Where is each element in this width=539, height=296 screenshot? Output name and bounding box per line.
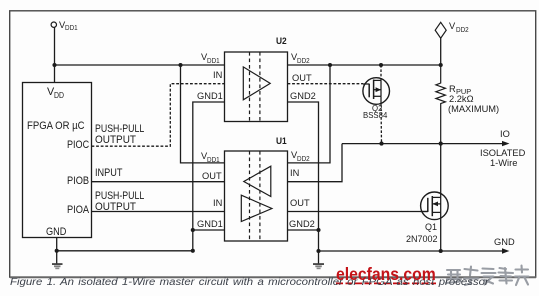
label ISOLATED — [480, 149, 525, 158]
wire U2 GND2 — [288, 102, 319, 251]
wire gnd2 rail to arrow — [319, 250, 506, 252]
label U1 pin OUT left — [202, 172, 222, 181]
label transistor Q2 — [372, 105, 382, 113]
label U2 pin GND1 — [197, 92, 223, 101]
wire U1 IN up to IO node — [288, 144, 343, 182]
label U1 pin VDD2 subscript — [297, 155, 310, 162]
label RPUP maximum — [448, 105, 499, 114]
label FPGA pin PIOA — [67, 205, 89, 216]
U1 box — [225, 151, 288, 241]
label net VDD2 terminal — [449, 22, 455, 31]
wire VDD2 diamond down — [440, 38, 442, 65]
wire U1 VDD2 branch — [288, 65, 331, 163]
label PUSH-PULL OUTPUT lower line2 — [95, 202, 136, 213]
wire U1 VDD1 branch — [181, 65, 225, 163]
label U1 pin OUT right — [290, 199, 310, 208]
wire gnd1 stem — [56, 251, 58, 263]
wire IO line — [342, 143, 506, 145]
wire U1 OUT to Q1 gate — [288, 211, 428, 213]
U2 buffer triangle — [243, 67, 270, 100]
label FPGA OR uC — [27, 121, 85, 132]
label U1 pin GND1 — [197, 220, 223, 229]
label net GND right — [494, 238, 515, 247]
label RPUP value 2.2k — [449, 95, 474, 104]
watermark chinese characters — [446, 266, 529, 286]
label U2 pin VDD2 — [291, 53, 297, 62]
ground symbol right — [313, 263, 324, 269]
label U1 pin IN right — [290, 169, 299, 178]
label net VDD1 subscript — [65, 24, 78, 31]
wire VDD1 rail — [55, 64, 225, 66]
label PUSH-PULL OUTPUT upper line2 — [95, 135, 136, 146]
label FPGA pin VDD — [47, 87, 54, 98]
FPGA box — [23, 83, 92, 238]
wire U1 GND1 — [193, 229, 225, 231]
label FPGA pin PIOB — [67, 176, 89, 187]
label U2 pin OUT — [292, 74, 312, 83]
watermark underline — [336, 282, 436, 284]
label U1 pin IN left — [213, 199, 222, 208]
label U2 pin VDD1 subscript — [207, 57, 220, 64]
label resistor RPUP — [449, 85, 456, 94]
label FPGA pin GND — [46, 227, 66, 238]
label U2 pin GND2 — [290, 92, 316, 101]
label FPGA pin PIOC — [67, 140, 89, 151]
label transistor Q1 — [425, 223, 437, 232]
U1 buffer triangle left — [244, 166, 271, 196]
wire Q1 drain down — [440, 144, 442, 198]
arrow IO — [502, 141, 510, 146]
label 1-Wire — [490, 159, 517, 168]
U2 box — [225, 52, 288, 122]
wire U2 GND1 — [193, 102, 225, 251]
wire gnd2 stem — [318, 251, 320, 263]
label net IO — [500, 130, 510, 139]
transistor Q1 2N7002 — [421, 192, 449, 220]
resistor RPUP — [436, 65, 446, 144]
wire U2 OUT dashed to Q2 gate — [288, 83, 364, 85]
wire Q2 source dashed bottom — [380, 104, 383, 144]
label INPUT — [95, 168, 122, 179]
U1 isolation dashes — [249, 151, 251, 241]
wire PIOC dashed to U2 IN — [92, 84, 225, 147]
ground symbol left — [52, 263, 63, 269]
label net VDD1 terminal — [59, 21, 65, 30]
wire FPGA VDD — [54, 65, 56, 83]
terminal VDD2 diamond — [435, 22, 446, 38]
wire Q1 source down — [440, 212, 442, 251]
wire VDD2 rail — [288, 64, 441, 66]
label FPGA pin VDD subscript — [54, 92, 64, 100]
wire PIOA OUTPUT to U1 IN — [92, 211, 225, 213]
wire gnd1 rail — [57, 250, 193, 252]
watermark elecfans.com — [336, 266, 436, 284]
U1 buffer triangle right — [241, 195, 272, 221]
label PUSH-PULL OUTPUT lower line1 — [95, 191, 144, 202]
label U1 pin GND2 — [289, 220, 315, 229]
label U2 pin VDD1 — [201, 53, 207, 62]
transistor Q2 BSS84 — [363, 78, 390, 105]
label isolator U2 — [276, 37, 287, 46]
wire U1 GND2 — [288, 229, 319, 231]
label resistor RPUP subscript — [456, 88, 471, 95]
arrow GND — [502, 248, 510, 253]
wire Q2 drain dashed top — [380, 65, 382, 78]
label PUSH-PULL OUTPUT upper line1 — [95, 124, 144, 135]
label U2 pin IN — [213, 71, 222, 80]
label isolator U1 — [276, 137, 287, 146]
wire PIOB INPUT to U1 OUT — [92, 181, 225, 183]
label U2 pin VDD2 subscript — [297, 57, 310, 64]
wire VDD1 terminal down — [54, 27, 56, 65]
label U1 pin VDD1 subscript — [207, 156, 220, 163]
label Q2 value BSS84 — [363, 112, 387, 120]
label net VDD2 subscript — [456, 26, 469, 33]
U2 isolation dashes — [249, 52, 251, 122]
label U1 pin VDD1 — [201, 152, 207, 161]
wire FPGA GND down — [56, 238, 58, 251]
label U1 pin VDD2 — [291, 151, 297, 160]
label Q1 value 2N7002 — [406, 235, 438, 244]
terminal VDD1 — [51, 22, 56, 27]
caption figure 1 — [10, 278, 489, 288]
